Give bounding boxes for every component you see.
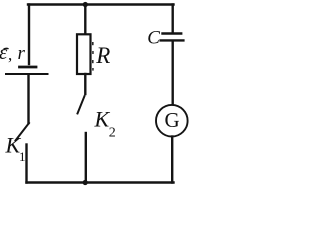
svg-text:1: 1 [19, 149, 26, 164]
svg-text:r: r [18, 43, 26, 64]
svg-text:C: C [147, 28, 160, 49]
svg-text:2: 2 [109, 126, 116, 141]
svg-text:ε: ε [0, 40, 8, 64]
svg-text:,: , [8, 45, 12, 64]
svg-text:R: R [95, 43, 110, 68]
svg-text:G: G [165, 108, 180, 132]
